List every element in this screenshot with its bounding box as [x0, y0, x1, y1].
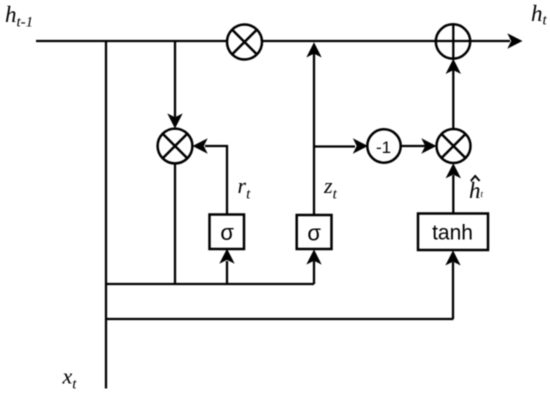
- svg-text:ht-1: ht-1: [5, 2, 33, 31]
- svg-text:tanh: tanh: [432, 222, 473, 245]
- svg-text:rt: rt: [238, 173, 252, 203]
- svg-text:-1: -1: [376, 138, 391, 157]
- svg-text:ht: ht: [531, 1, 548, 29]
- svg-text:ht: ht: [469, 178, 484, 203]
- svg-text:xt: xt: [62, 364, 78, 393]
- svg-text:σ: σ: [307, 221, 321, 246]
- svg-text:zt: zt: [323, 173, 338, 203]
- svg-text:σ: σ: [220, 220, 234, 245]
